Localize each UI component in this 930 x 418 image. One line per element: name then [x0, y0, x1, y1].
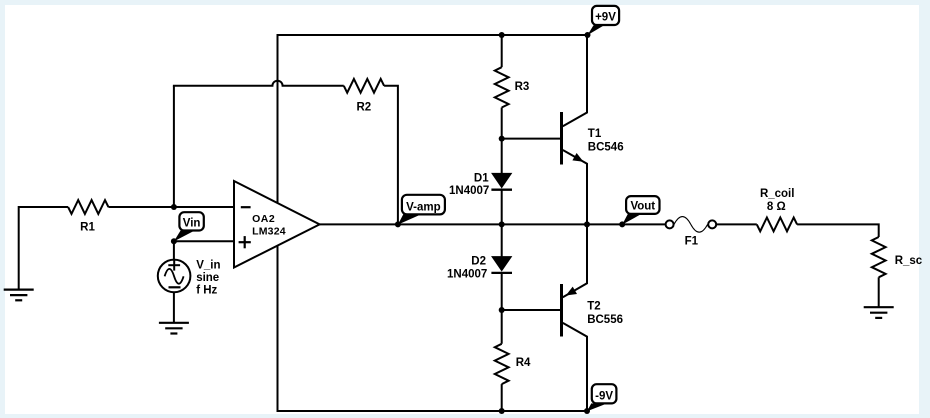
wire D2 to T2 base node	[501, 273, 503, 344]
wire rail to R3	[501, 35, 503, 67]
wire T1 base	[502, 138, 561, 140]
wire Vin node to op-amp non-inverting input	[174, 240, 234, 242]
svg-text:BC546: BC546	[588, 142, 624, 154]
transistor Q1 T1 BC546	[562, 35, 588, 224]
svg-text:Vout: Vout	[630, 201, 655, 213]
svg-text:LM324: LM324	[252, 226, 286, 238]
wire source to ground	[173, 292, 175, 323]
junction: +9V node	[585, 32, 591, 38]
junction: T1 base node	[499, 136, 505, 142]
junction: V-amp node	[395, 221, 401, 227]
junction: emitters / output node	[584, 221, 590, 227]
svg-text:1N4007: 1N4007	[449, 185, 489, 197]
svg-text:D1: D1	[474, 172, 489, 184]
wire R_coil to R_sc	[797, 224, 879, 237]
svg-text:f Hz: f Hz	[196, 285, 217, 297]
diode D1 1N4007	[491, 173, 512, 189]
wire top +9V rail	[278, 34, 588, 36]
wire R2 to output node	[384, 86, 398, 225]
svg-text:R_coil: R_coil	[760, 188, 795, 200]
junction: inverting input node	[171, 204, 177, 210]
wire R_sc to ground	[878, 277, 880, 307]
wire Vin node to source	[173, 241, 175, 260]
junction: -9V node	[584, 408, 590, 414]
label node -9V (callout)	[587, 384, 616, 411]
svg-text:R2: R2	[356, 102, 371, 114]
svg-text:V_in: V_in	[196, 260, 220, 272]
wire left supply vertical (top rail to op-amp V+ pin)	[277, 34, 279, 203]
svg-text:Vin: Vin	[183, 217, 201, 229]
svg-text:BC556: BC556	[587, 314, 623, 326]
junction: diode midpoint on output	[499, 221, 505, 227]
wire ground riser to input	[19, 207, 68, 290]
wire op-amp output	[320, 223, 666, 225]
ground (load)	[864, 307, 894, 318]
resistor R3	[495, 67, 509, 107]
svg-text:R4: R4	[516, 357, 531, 369]
ground (input side)	[4, 290, 34, 301]
svg-text:R3: R3	[515, 81, 530, 93]
wire op-amp V- pin to bottom rail	[277, 246, 279, 412]
junction: Vout node	[619, 221, 625, 227]
label V_in sine f Hz	[196, 260, 220, 297]
svg-text:8 Ω: 8 Ω	[767, 201, 786, 213]
label node Vout (callout)	[622, 196, 659, 225]
resistor R4	[495, 344, 509, 384]
wire fuse to R_coil	[716, 223, 757, 225]
resistor R2	[344, 79, 384, 93]
junction: R4 bottom on -9V rail	[499, 408, 505, 414]
svg-text:R1: R1	[80, 222, 95, 234]
svg-text:T1: T1	[588, 128, 602, 140]
wire feedback vertical	[173, 86, 175, 207]
ground (source)	[159, 323, 189, 334]
wire R4 to bottom rail	[501, 384, 503, 411]
wire R3 to T1 base node	[501, 108, 503, 175]
wire D1 to output rail	[501, 190, 503, 258]
op-amp U1 OA2 LM324	[234, 181, 320, 268]
junction: T2 base node	[499, 307, 505, 313]
svg-text:+9V: +9V	[595, 11, 616, 23]
svg-text:F1: F1	[685, 235, 699, 247]
label node Vin (callout)	[174, 212, 204, 241]
wire R1 to op-amp inverting input	[108, 206, 234, 208]
resistor R_coil	[757, 217, 797, 231]
node Vin	[171, 238, 177, 244]
junction: R3 top on +9V rail	[499, 32, 505, 38]
label node +9V (callout)	[588, 6, 620, 35]
fuse F1	[666, 217, 717, 233]
svg-text:-9V: -9V	[595, 390, 613, 402]
svg-text:1N4007: 1N4007	[447, 268, 487, 280]
svg-text:V-amp: V-amp	[406, 201, 441, 213]
svg-text:R_sc: R_sc	[895, 255, 923, 267]
svg-text:T2: T2	[587, 301, 600, 313]
resistor R_sc	[872, 237, 886, 277]
svg-text:D2: D2	[471, 256, 486, 268]
diode D2 1N4007	[491, 257, 512, 273]
resistor R1	[68, 200, 108, 214]
wire feedback horizontal with hop over supply wire	[173, 81, 344, 86]
label node V-amp (callout)	[398, 195, 445, 225]
source V_in sine	[158, 260, 191, 293]
svg-text:OA2: OA2	[252, 213, 275, 225]
wire T2 base	[502, 309, 561, 311]
wire bottom -9V rail	[278, 410, 588, 412]
svg-text:sine: sine	[196, 272, 219, 284]
transistor Q2 T2 BC556	[562, 224, 588, 411]
